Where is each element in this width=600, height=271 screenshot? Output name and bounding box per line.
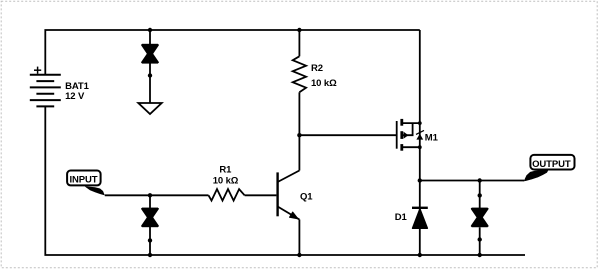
diode D1 xyxy=(412,208,428,229)
source arrow of M1 xyxy=(416,134,423,140)
junction left TVS lower terminal xyxy=(148,238,152,242)
junction R2 / Q1 collector / M1 gate xyxy=(297,133,301,137)
battery positive terminal plus sign xyxy=(34,67,41,74)
junction input wire / left TVS xyxy=(148,193,152,197)
drain lead of M1 xyxy=(402,122,420,124)
svg-text:D1: D1 xyxy=(395,212,408,223)
bidirectional TVS diode top xyxy=(142,45,158,62)
body lead of M1 xyxy=(402,123,413,135)
bidirectional TVS diode bottom-right xyxy=(472,209,488,226)
junction top rail / top TVS xyxy=(148,28,152,32)
junction M1 source / right rail xyxy=(418,145,422,149)
wire left TVS upper lead xyxy=(149,195,151,208)
junction right TVS lower terminal xyxy=(478,237,482,241)
node INPUT flag xyxy=(67,171,105,196)
wire INPUT to R1 xyxy=(105,194,209,196)
channel drain segment of M1 xyxy=(400,119,403,126)
bidirectional TVS diode bottom-left xyxy=(142,209,158,226)
source lead of M1 xyxy=(402,146,420,148)
channel source segment of M1 xyxy=(400,144,403,151)
wire right TVS lower lead xyxy=(479,227,481,255)
wire right rail (M1 drain/source column) xyxy=(419,30,421,255)
channel body segment of M1 xyxy=(400,131,403,139)
junction M1 drain / right rail xyxy=(418,121,422,125)
svg-text:12 V: 12 V xyxy=(65,91,85,102)
junction top TVS lower terminal xyxy=(148,73,152,77)
wire OUTPUT xyxy=(420,180,524,182)
svg-text:R2: R2 xyxy=(311,63,323,74)
svg-text:OUTPUT: OUTPUT xyxy=(532,159,571,170)
svg-text:INPUT: INPUT xyxy=(70,175,98,186)
gate bar of M1 xyxy=(396,121,398,149)
wire R2 bottom lead xyxy=(298,92,300,135)
wire R1 to Q1 base xyxy=(245,194,277,196)
svg-text:10 kΩ: 10 kΩ xyxy=(311,78,337,89)
svg-text:R1: R1 xyxy=(219,164,232,175)
wire R2 top lead xyxy=(298,30,300,56)
resistor R1 xyxy=(209,189,245,201)
transistor Q1 xyxy=(278,135,300,255)
svg-text:10 kΩ: 10 kΩ xyxy=(213,176,239,187)
wire right TVS upper lead xyxy=(479,181,481,209)
junction bottom rail / Q1 emitter xyxy=(297,253,301,257)
battery BAT1 xyxy=(30,75,61,107)
svg-text:M1: M1 xyxy=(425,133,439,144)
junction right TVS upper terminal xyxy=(478,193,482,197)
junction bottom rail / right TVS xyxy=(478,253,482,257)
ground xyxy=(138,103,161,114)
wire gate of M1 xyxy=(299,134,396,136)
wire top rail (battery + to VDD net) xyxy=(45,30,420,75)
wire top TVS lower lead to ground xyxy=(149,63,151,103)
wire top TVS upper lead xyxy=(149,30,151,45)
node OUTPUT flag xyxy=(524,155,575,182)
wire left rail and bottom ground rail xyxy=(45,106,525,255)
junction output wire / right TVS xyxy=(478,178,482,182)
body arrow of M1 xyxy=(404,132,409,139)
junction bottom rail / D1 xyxy=(418,253,422,257)
junction bottom rail / left TVS xyxy=(148,253,152,257)
junction top rail / R2 xyxy=(297,28,301,32)
MOSFET M1 xyxy=(397,119,424,151)
resistor R2 xyxy=(293,56,306,92)
junction right rail / output wire xyxy=(418,178,422,182)
wire left TVS lower lead xyxy=(149,227,151,255)
svg-text:Q1: Q1 xyxy=(300,192,313,203)
